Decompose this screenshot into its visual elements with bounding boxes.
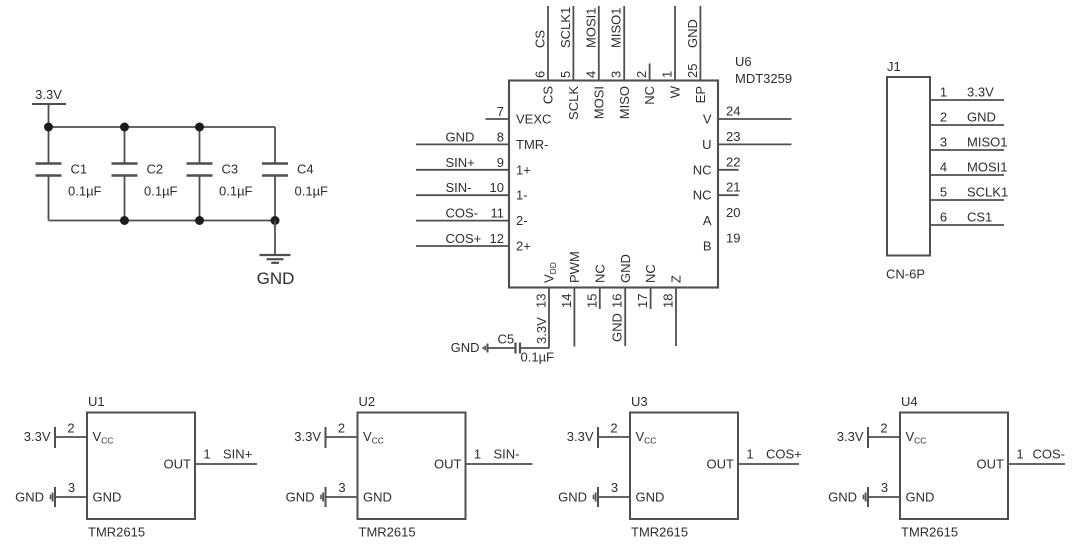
svg-text:10: 10	[490, 180, 504, 195]
svg-text:TMR2615: TMR2615	[631, 525, 688, 540]
pin 5 SCLK (top)	[558, 6, 581, 120]
svg-text:SIN+: SIN+	[446, 155, 475, 170]
svg-text:2: 2	[610, 421, 617, 436]
node top rail at C1	[44, 123, 53, 132]
svg-text:18: 18	[661, 294, 676, 308]
svg-text:SIN+: SIN+	[223, 447, 252, 462]
svg-text:25: 25	[685, 64, 700, 78]
svg-text:SCLK1: SCLK1	[558, 7, 573, 48]
pin 11 2- (left)	[416, 206, 528, 229]
svg-text:0.1µF: 0.1µF	[144, 184, 178, 199]
svg-text:MISO1: MISO1	[609, 8, 624, 48]
svg-text:GND: GND	[558, 490, 587, 505]
svg-text:16: 16	[610, 294, 625, 308]
svg-text:MISO: MISO	[617, 86, 632, 119]
pin 1 3.3V (J1)	[930, 85, 1004, 101]
svg-text:3.3V: 3.3V	[837, 429, 864, 444]
svg-text:EP: EP	[693, 86, 708, 103]
ground (U1)	[15, 487, 55, 507]
svg-text:5: 5	[940, 185, 947, 200]
svg-text:6: 6	[940, 210, 947, 225]
svg-text:C5: C5	[498, 332, 515, 347]
svg-text:SCLK: SCLK	[566, 86, 581, 120]
svg-text:0.1µF: 0.1µF	[295, 184, 329, 199]
svg-text:2+: 2+	[516, 239, 531, 254]
pin 1 OUT (U2)	[434, 447, 532, 472]
pin 3 GND (U1)	[55, 480, 121, 505]
capacitor C3 0.1uF	[187, 127, 253, 221]
svg-text:GND: GND	[451, 340, 480, 355]
svg-text:3.3V: 3.3V	[967, 85, 994, 100]
svg-text:19: 19	[726, 231, 740, 246]
svg-text:PWM: PWM	[567, 251, 582, 283]
pin 6 CS (top)	[533, 6, 556, 104]
svg-text:3: 3	[940, 135, 947, 150]
svg-text:C4: C4	[297, 162, 314, 177]
svg-text:CS: CS	[533, 30, 548, 48]
pin 16 (bottom)	[610, 254, 633, 346]
svg-text:MOSI: MOSI	[591, 86, 606, 119]
svg-text:COS-: COS-	[1033, 447, 1066, 462]
pin 6 CS1 (J1)	[930, 210, 1004, 226]
svg-text:C1: C1	[71, 162, 88, 177]
pin 3 MISO (top)	[609, 6, 632, 119]
svg-text:GND: GND	[610, 313, 625, 342]
node bottom rail at C2	[120, 216, 129, 225]
svg-text:COS-: COS-	[446, 206, 479, 221]
wire 3.3V top rail	[49, 126, 276, 128]
svg-text:22: 22	[726, 154, 740, 169]
svg-text:U2: U2	[359, 394, 376, 409]
pin 2 NC (top)	[634, 64, 657, 105]
pin 4 MOSI (top)	[583, 6, 606, 119]
pin 2 GND (J1)	[930, 110, 1004, 126]
svg-text:NC: NC	[642, 86, 657, 105]
svg-text:3.3V: 3.3V	[294, 429, 321, 444]
svg-text:0.1µF: 0.1µF	[521, 350, 555, 365]
capacitor C2 0.1uF	[112, 127, 178, 221]
pin 15 (bottom)	[584, 264, 607, 309]
svg-text:12: 12	[490, 231, 504, 246]
ground (U3)	[558, 487, 598, 507]
svg-text:4: 4	[583, 71, 598, 78]
power symbol 3.3V	[32, 87, 66, 127]
svg-text:MOSI1: MOSI1	[583, 8, 598, 48]
svg-text:GND: GND	[446, 129, 475, 144]
wire pin13 to C5	[520, 347, 549, 349]
pin 17 (bottom)	[635, 264, 658, 309]
svg-text:CS1: CS1	[967, 210, 992, 225]
pin 25 EP (top)	[685, 6, 708, 103]
svg-text:TMR-: TMR-	[516, 137, 549, 152]
pin 3 GND (U2)	[326, 480, 392, 505]
connector J1 body	[887, 77, 930, 256]
svg-text:U3: U3	[631, 394, 648, 409]
pin 1 W (top)	[660, 6, 683, 98]
pin 18 (bottom)	[661, 275, 684, 346]
svg-text:GND: GND	[967, 110, 996, 125]
svg-text:W: W	[668, 85, 683, 98]
svg-text:7: 7	[497, 104, 504, 119]
svg-text:1: 1	[1016, 447, 1023, 462]
svg-text:GND: GND	[257, 269, 295, 288]
svg-text:3.3V: 3.3V	[35, 87, 62, 102]
svg-text:U: U	[702, 137, 711, 152]
pin 1 OUT (U4)	[977, 447, 1065, 472]
svg-text:2: 2	[338, 421, 345, 436]
svg-text:MOSI1: MOSI1	[967, 160, 1007, 175]
svg-text:B: B	[703, 239, 712, 254]
svg-text:23: 23	[726, 129, 740, 144]
svg-text:6: 6	[533, 71, 548, 78]
pin 21 NC (right)	[693, 180, 741, 203]
pin 23 U (right)	[702, 129, 791, 152]
svg-text:U1: U1	[88, 394, 105, 409]
svg-text:GND: GND	[685, 19, 700, 48]
svg-text:3: 3	[611, 480, 618, 495]
pin 20 A (right)	[703, 205, 741, 228]
ground (cap bank)	[257, 221, 295, 289]
svg-text:GND: GND	[828, 490, 857, 505]
svg-text:C2: C2	[147, 162, 164, 177]
svg-text:1: 1	[940, 85, 947, 100]
svg-text:GND: GND	[15, 490, 44, 505]
pin 3 GND (U4)	[868, 480, 934, 505]
svg-text:TMR2615: TMR2615	[88, 525, 145, 540]
ground (U4)	[828, 487, 868, 507]
svg-text:TMR2615: TMR2615	[359, 525, 416, 540]
pin 7 VEXC (left)	[486, 104, 552, 127]
svg-text:CN-6P: CN-6P	[886, 267, 925, 282]
sensor U1 TMR2615 body	[87, 413, 195, 520]
IC U6 MDT3259 body	[509, 81, 718, 288]
svg-text:OUT: OUT	[434, 457, 462, 472]
svg-text:COS+: COS+	[766, 447, 802, 462]
capacitor C1 0.1uF	[36, 127, 102, 221]
svg-text:OUT: OUT	[707, 457, 735, 472]
svg-text:GND: GND	[906, 490, 935, 505]
svg-text:3: 3	[338, 480, 345, 495]
svg-text:NC: NC	[693, 188, 712, 203]
svg-text:24: 24	[726, 104, 740, 119]
ground (U2)	[286, 487, 326, 507]
svg-text:J1: J1	[887, 59, 901, 74]
pin 19 B (right)	[703, 231, 741, 254]
svg-text:2: 2	[880, 421, 887, 436]
pin 1 OUT (U1)	[164, 447, 257, 472]
wire GND bottom rail	[49, 220, 276, 222]
svg-text:11: 11	[491, 206, 505, 221]
svg-text:14: 14	[559, 294, 574, 308]
svg-text:1: 1	[474, 447, 481, 462]
svg-text:3.3V: 3.3V	[24, 429, 51, 444]
pin 2 VCC (U1)	[55, 421, 113, 449]
svg-text:2: 2	[67, 421, 74, 436]
pin 13 (bottom)	[534, 262, 559, 348]
svg-text:1: 1	[746, 447, 753, 462]
ground (C5)	[451, 340, 488, 355]
pin 24 V (right)	[703, 104, 792, 127]
svg-text:U6: U6	[735, 54, 752, 69]
svg-text:TMR2615: TMR2615	[901, 525, 958, 540]
svg-text:CS: CS	[541, 86, 556, 104]
svg-text:20: 20	[726, 205, 740, 220]
svg-text:MISO1: MISO1	[967, 135, 1007, 150]
svg-text:GND: GND	[363, 490, 392, 505]
svg-text:9: 9	[497, 155, 504, 170]
svg-text:1-: 1-	[516, 188, 528, 203]
svg-text:NC: NC	[693, 162, 712, 177]
svg-text:4: 4	[940, 160, 947, 175]
svg-text:VEXC: VEXC	[516, 112, 551, 127]
node bottom rail at C3	[195, 216, 204, 225]
pin 4 MOSI1 (J1)	[930, 160, 1007, 176]
svg-text:21: 21	[726, 180, 740, 195]
svg-text:U4: U4	[901, 394, 918, 409]
svg-text:3: 3	[881, 480, 888, 495]
svg-text:GND: GND	[618, 254, 633, 283]
svg-text:2: 2	[634, 71, 649, 78]
svg-text:1+: 1+	[516, 162, 531, 177]
svg-text:3.3V: 3.3V	[534, 317, 549, 344]
pin 1 OUT (U3)	[707, 447, 799, 472]
pin 5 SCLK1 (J1)	[930, 185, 1008, 201]
pin 8 TMR- (left)	[416, 129, 549, 152]
pin 9 1+ (left)	[416, 155, 531, 178]
wire C5 to ground	[488, 347, 516, 349]
svg-text:A: A	[703, 213, 712, 228]
pin 2 VCC (U4)	[868, 421, 926, 449]
svg-text:3: 3	[609, 71, 624, 78]
svg-text:5: 5	[558, 71, 573, 78]
pin 3 GND (U3)	[598, 480, 664, 505]
svg-text:COS+: COS+	[446, 231, 482, 246]
svg-text:1: 1	[660, 71, 675, 78]
capacitor C5 0.1uF	[498, 332, 555, 365]
capacitor C4 0.1uF	[262, 127, 328, 221]
svg-text:8: 8	[497, 129, 504, 144]
svg-text:15: 15	[584, 294, 599, 308]
svg-text:NC: NC	[643, 264, 658, 283]
pin 2 VCC (U3)	[598, 421, 656, 449]
pin 12 2+ (left)	[416, 231, 531, 254]
node top rail at C2	[120, 123, 129, 132]
pin 10 1- (left)	[416, 180, 528, 203]
svg-text:13: 13	[534, 294, 549, 308]
sensor U4 TMR2615 body	[900, 413, 1008, 520]
svg-text:OUT: OUT	[164, 457, 192, 472]
svg-text:3: 3	[68, 480, 75, 495]
sensor U2 TMR2615 body	[358, 413, 466, 520]
pin 22 NC (right)	[693, 154, 741, 177]
svg-text:SIN-: SIN-	[494, 447, 520, 462]
node top rail at C3	[195, 123, 204, 132]
svg-text:MDT3259: MDT3259	[735, 71, 792, 86]
svg-text:3.3V: 3.3V	[567, 429, 594, 444]
svg-text:GND: GND	[286, 490, 315, 505]
svg-text:GND: GND	[93, 490, 122, 505]
svg-text:GND: GND	[636, 490, 665, 505]
svg-text:NC: NC	[592, 264, 607, 283]
svg-text:17: 17	[635, 294, 650, 308]
svg-text:0.1µF: 0.1µF	[219, 184, 253, 199]
svg-text:0.1µF: 0.1µF	[68, 184, 102, 199]
svg-text:V: V	[703, 112, 712, 127]
svg-text:Z: Z	[669, 275, 684, 283]
pin 3 MISO1 (J1)	[930, 135, 1007, 151]
svg-text:SIN-: SIN-	[446, 180, 472, 195]
svg-text:2: 2	[940, 110, 947, 125]
svg-text:2-: 2-	[516, 213, 528, 228]
node bottom rail at C4 / ground tap	[271, 216, 280, 225]
svg-text:SCLK1: SCLK1	[967, 185, 1008, 200]
svg-text:C3: C3	[222, 162, 239, 177]
svg-text:OUT: OUT	[977, 457, 1005, 472]
pin 14 (bottom)	[559, 251, 582, 346]
sensor U3 TMR2615 body	[630, 413, 738, 520]
svg-text:1: 1	[203, 447, 210, 462]
pin 2 VCC (U2)	[326, 421, 384, 449]
